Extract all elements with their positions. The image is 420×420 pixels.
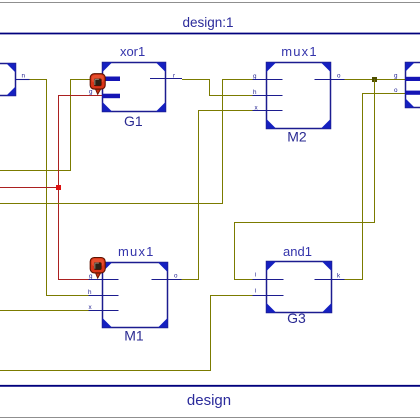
svg-text:mux1: mux1 (281, 44, 318, 59)
svg-text:mux1: mux1 (118, 244, 155, 259)
mux block M2 (253, 63, 345, 129)
wire M2 output to right block pin 1 (345, 79, 406, 81)
svg-text:M2: M2 (287, 129, 307, 145)
svg-text:i: i (255, 288, 256, 295)
top window frame line (0, 2, 420, 4)
svg-text:n: n (22, 73, 26, 80)
svg-text:G3: G3 (287, 310, 306, 326)
top title bar rule (0, 33, 420, 35)
xor gate G1 (103, 63, 183, 112)
junction red net (56, 185, 61, 190)
wire left edge net to M2 pin g (0, 80, 253, 204)
wire left edge bottom net to G3 pin i2 (0, 296, 253, 371)
and gate G3 (253, 262, 345, 313)
bottom window frame line (0, 417, 420, 419)
wire G1 output to M2 pin h (182, 80, 253, 96)
svg-text:g: g (394, 73, 398, 80)
input buffer block left edge partial (0, 64, 30, 96)
junction M2 output net (372, 77, 377, 82)
svg-text:g: g (253, 73, 257, 80)
svg-text:h: h (253, 89, 257, 96)
wire marked red net stub from left edge (0, 187, 59, 189)
wire left edge net to M1 pin x (0, 310, 89, 312)
mux block M1 (88, 263, 182, 328)
svg-text:and1: and1 (283, 244, 312, 259)
svg-text:h: h (88, 289, 92, 296)
wire left edge net to G1 pin 1 (0, 80, 103, 171)
svg-text:M1: M1 (124, 328, 144, 344)
svg-text:xor1: xor1 (120, 44, 145, 59)
bottom status bar rule (0, 385, 420, 387)
wire G3 output to right block pin 2 (345, 94, 406, 280)
wire marked red net G1 pin 2 to M1 pin g (59, 96, 103, 280)
svg-text:o: o (394, 87, 398, 94)
probe marker on G1 input (89, 74, 105, 96)
wire IBUF output to M1 pin h (28, 80, 103, 296)
wire junction branch down to G3 pin i1 (235, 80, 375, 280)
output gate block right edge partial (394, 63, 420, 108)
svg-text:design:1: design:1 (182, 15, 233, 30)
svg-text:design: design (187, 392, 231, 409)
probe marker on M1 input g (90, 258, 105, 279)
wire M1 output to M2 pin x (182, 111, 253, 280)
svg-text:r: r (173, 73, 175, 80)
svg-text:o: o (174, 273, 178, 280)
svg-text:g: g (89, 273, 93, 280)
svg-text:g: g (89, 89, 93, 96)
svg-text:G1: G1 (124, 113, 143, 129)
svg-text:o: o (337, 73, 341, 80)
svg-text:i: i (255, 272, 256, 279)
